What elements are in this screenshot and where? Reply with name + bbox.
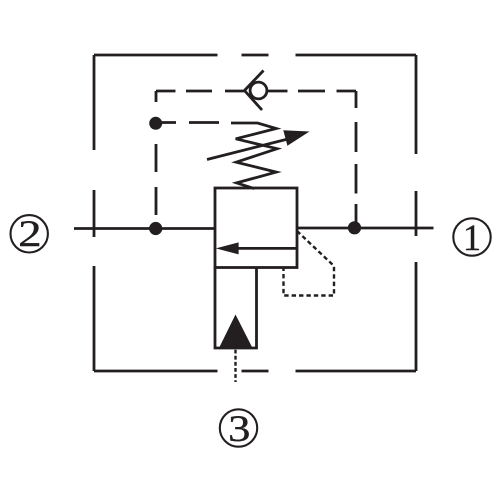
- svg-text:3: 3: [228, 409, 250, 449]
- right port wire to port 1: [297, 227, 434, 230]
- junction dot on right port line: [348, 221, 361, 234]
- junction dot on pilot box left edge: [149, 117, 162, 130]
- check valve C1: seat V lower line: [244, 90, 262, 110]
- flow direction triangle in tube: [219, 315, 253, 349]
- svg-text:2: 2: [18, 215, 41, 255]
- dashed pilot branch wire from left dot to spring: [162, 121, 219, 124]
- main valve envelope box: [215, 188, 297, 268]
- lower tube (port 3 passage): [215, 268, 257, 349]
- pilot dashed box: top edge right of check valve: [267, 90, 357, 93]
- dotted drain wire below tube: [234, 350, 236, 382]
- port 3 label circle: [220, 409, 257, 446]
- valve envelope outer dashed boundary: top edge: [94, 54, 416, 57]
- valve envelope outer dashed boundary: bottom edge: [94, 370, 416, 373]
- svg-text:1: 1: [463, 217, 481, 258]
- dotted pilot sense wire (staircase): [284, 231, 335, 296]
- check valve C1: seat V upper line: [244, 71, 264, 92]
- port 2 label circle: [11, 215, 48, 252]
- pilot dashed box: top edge left of check valve: [156, 90, 244, 93]
- adjustment arrow head: [283, 130, 309, 146]
- port 1 label circle: [453, 218, 490, 255]
- check valve C1: poppet ball circle: [250, 82, 267, 99]
- pilot dashed box: right edge: [355, 91, 358, 227]
- left port wire to port 2: [74, 227, 215, 230]
- valve envelope outer dashed boundary: left edge: [93, 55, 96, 371]
- spring (zigzag): [231, 123, 277, 189]
- flow arrow shaft inside box: [236, 247, 297, 250]
- flow arrow head (points left): [216, 242, 239, 254]
- junction dot on left port line: [149, 222, 162, 235]
- adjustment arrow shaft: [207, 139, 288, 160]
- pilot dashed box: left edge: [155, 91, 158, 228]
- valve envelope outer dashed boundary: right edge: [415, 55, 418, 371]
